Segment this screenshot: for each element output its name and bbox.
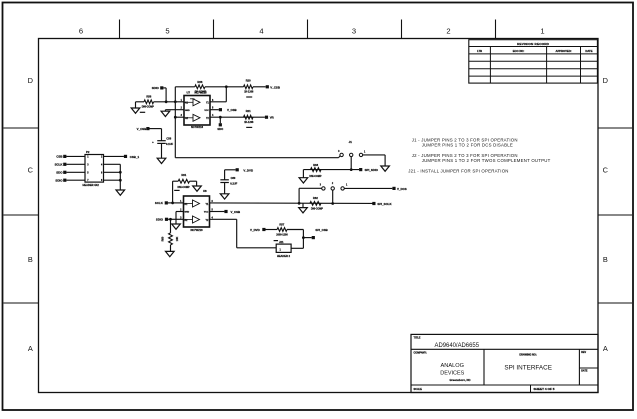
svg-text:J1: J1 bbox=[349, 140, 353, 144]
svg-text:SDIO: SDIO bbox=[156, 218, 164, 222]
svg-text:R57: R57 bbox=[279, 222, 284, 226]
svg-text:VCC: VCC bbox=[204, 212, 209, 214]
svg-text:0.1UF: 0.1UF bbox=[166, 142, 173, 146]
svg-text:DK-COMP: DK-COMP bbox=[195, 91, 207, 94]
svg-text:SDIO: SDIO bbox=[152, 86, 160, 90]
svg-text:DEVICES: DEVICES bbox=[440, 371, 464, 377]
svg-text:A: A bbox=[28, 344, 33, 353]
svg-text:+: + bbox=[152, 140, 154, 144]
svg-text:V_CSB: V_CSB bbox=[270, 85, 280, 89]
svg-text:R66: R66 bbox=[197, 80, 202, 84]
svg-text:APPROVED:: APPROVED: bbox=[556, 49, 572, 53]
svg-text:DATE: DATE bbox=[585, 49, 592, 53]
svg-text:NC7WZ16: NC7WZ16 bbox=[191, 125, 204, 129]
svg-text:GND: GND bbox=[185, 110, 190, 112]
svg-text:2000-1206: 2000-1206 bbox=[276, 234, 288, 237]
svg-text:R62: R62 bbox=[313, 196, 318, 200]
svg-text:4: 4 bbox=[259, 27, 263, 36]
svg-text:B: B bbox=[28, 255, 33, 264]
svg-text:10K: 10K bbox=[176, 237, 179, 242]
svg-text:SPI_SDIO: SPI_SDIO bbox=[365, 168, 379, 172]
svg-text:1K-1206: 1K-1206 bbox=[244, 121, 254, 124]
svg-text:NC7WZ16: NC7WZ16 bbox=[190, 228, 203, 232]
svg-text:DRAWING NO:: DRAWING NO: bbox=[519, 353, 537, 356]
svg-text:J21 - INSTALL JUMPER FOR SPI O: J21 - INSTALL JUMPER FOR SPI OPERATION bbox=[408, 168, 508, 173]
svg-text:0.1UF: 0.1UF bbox=[230, 181, 237, 185]
svg-text:VCC: VCC bbox=[204, 110, 209, 112]
svg-text:3: 3 bbox=[352, 27, 356, 36]
svg-text:SCALE: SCALE bbox=[414, 388, 423, 391]
svg-text:SDO: SDO bbox=[56, 171, 63, 175]
svg-text:A: A bbox=[603, 344, 608, 353]
svg-text:C60: C60 bbox=[231, 176, 236, 180]
svg-text:1: 1 bbox=[540, 27, 544, 36]
svg-text:SHEET 4 OF 5: SHEET 4 OF 5 bbox=[534, 388, 556, 391]
svg-text:SCLK: SCLK bbox=[155, 201, 164, 205]
svg-text:DNI-COMP: DNI-COMP bbox=[142, 106, 154, 109]
svg-text:LTR: LTR bbox=[477, 49, 482, 53]
svg-text:U8: U8 bbox=[203, 189, 207, 193]
svg-text:C58: C58 bbox=[166, 137, 171, 141]
svg-text:R63: R63 bbox=[313, 163, 318, 167]
svg-text:SCLK: SCLK bbox=[55, 163, 64, 167]
svg-text:DNI-COMP: DNI-COMP bbox=[177, 186, 189, 189]
svg-text:V_DVD: V_DVD bbox=[243, 168, 253, 172]
svg-text:V_CSB: V_CSB bbox=[137, 127, 147, 131]
svg-text:C: C bbox=[28, 166, 34, 175]
svg-text:U7: U7 bbox=[187, 90, 191, 94]
svg-text:SDIO: SDIO bbox=[55, 179, 63, 183]
svg-text:DATE: DATE bbox=[581, 370, 588, 373]
svg-text:2: 2 bbox=[446, 27, 450, 36]
svg-text:D: D bbox=[28, 76, 33, 85]
svg-text:COMPANY:: COMPANY: bbox=[414, 351, 427, 354]
svg-text:ECO NO:: ECO NO: bbox=[513, 49, 525, 53]
svg-text:C: C bbox=[603, 166, 609, 175]
svg-text:DNI-COMP: DNI-COMP bbox=[309, 175, 321, 178]
svg-text:ANALOG: ANALOG bbox=[441, 363, 465, 369]
svg-text:R21: R21 bbox=[246, 109, 251, 113]
svg-text:Greensboro, NC: Greensboro, NC bbox=[450, 378, 472, 382]
svg-text:REVISION RECORD: REVISION RECORD bbox=[517, 42, 550, 46]
svg-text:HEADER 4X2: HEADER 4X2 bbox=[83, 183, 100, 187]
svg-text:DNI-COMP: DNI-COMP bbox=[311, 208, 323, 211]
svg-text:B: B bbox=[603, 255, 608, 264]
svg-text:SPI INTERFACE: SPI INTERFACE bbox=[504, 365, 552, 372]
svg-text:CSB_1: CSB_1 bbox=[130, 155, 140, 159]
svg-text:TITLE: TITLE bbox=[414, 337, 421, 340]
svg-text:SDO: SDO bbox=[217, 127, 223, 131]
svg-text:D: D bbox=[603, 76, 608, 85]
svg-text:JUMPER PINS 1 TO 2 FOR DCS DIS: JUMPER PINS 1 TO 2 FOR DCS DISABLE bbox=[422, 143, 513, 148]
svg-text:CSB: CSB bbox=[56, 155, 62, 159]
svg-text:R58: R58 bbox=[146, 95, 151, 99]
svg-text:HEADER 2: HEADER 2 bbox=[277, 254, 291, 258]
svg-text:V_DCS: V_DCS bbox=[397, 187, 407, 191]
svg-text:V_DVD: V_DVD bbox=[250, 228, 260, 232]
svg-text:AD9640/AD6655: AD9640/AD6655 bbox=[435, 342, 480, 349]
svg-text:R60: R60 bbox=[162, 236, 165, 241]
svg-text:V_CSB: V_CSB bbox=[227, 108, 237, 112]
svg-text:V_CSB: V_CSB bbox=[231, 210, 241, 214]
svg-text:JUMPER PINS 1 TO 2 FOR TWOS CO: JUMPER PINS 1 TO 2 FOR TWOS COMPLEMENT O… bbox=[422, 158, 551, 163]
svg-text:5: 5 bbox=[165, 27, 169, 36]
svg-text:GND: GND bbox=[185, 212, 190, 214]
svg-text:SPI_CSB: SPI_CSB bbox=[315, 228, 327, 232]
svg-text:REV: REV bbox=[581, 351, 586, 354]
svg-text:R61: R61 bbox=[181, 173, 186, 177]
svg-text:6: 6 bbox=[79, 27, 83, 36]
svg-text:SPI_SCLK: SPI_SCLK bbox=[377, 202, 392, 206]
svg-text:R20: R20 bbox=[246, 78, 251, 82]
svg-text:P2: P2 bbox=[86, 150, 90, 154]
svg-text:J21: J21 bbox=[279, 240, 284, 244]
svg-text:1K-1206: 1K-1206 bbox=[244, 91, 254, 94]
